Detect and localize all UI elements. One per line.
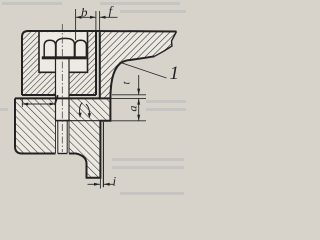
svg-text:a: a (126, 106, 140, 112)
svg-text:1: 1 (170, 63, 180, 84)
svg-text:i: i (113, 174, 117, 189)
svg-text:b: b (81, 4, 88, 19)
